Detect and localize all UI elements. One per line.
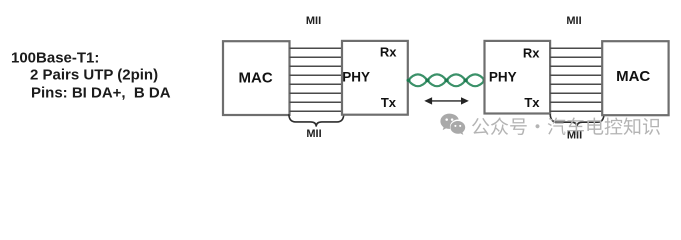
- watermark icon eyes: [445, 118, 461, 127]
- MII bus wires left (8 lines): [290, 48, 343, 111]
- MII bus wires right (8 lines): [550, 48, 602, 111]
- double-headed arrow under cable: [426, 98, 467, 103]
- svg-text:MII: MII: [306, 128, 321, 140]
- watermark text char 众: [491, 117, 508, 135]
- MAC box left: [223, 41, 290, 115]
- svg-text:100Base-T1:: 100Base-T1:: [11, 50, 99, 67]
- svg-text:MAC: MAC: [616, 68, 650, 85]
- watermark text char 电: [587, 118, 603, 135]
- svg-text:Rx: Rx: [380, 45, 397, 60]
- svg-text:2 Pairs UTP (2pin): 2 Pairs UTP (2pin): [30, 67, 158, 84]
- watermark text char 知: [624, 118, 641, 135]
- watermark text char 公: [472, 118, 489, 135]
- svg-text:MAC: MAC: [239, 69, 273, 86]
- MAC box right: [602, 41, 668, 115]
- svg-text:Rx: Rx: [523, 46, 540, 61]
- svg-text:Tx: Tx: [524, 95, 540, 110]
- svg-text:MII: MII: [566, 15, 581, 27]
- svg-text:Pins: BI DA+, B DA: Pins: BI DA+, B DA: [31, 84, 171, 101]
- brace under left MII bus: [289, 114, 344, 126]
- watermark text char 控: [605, 118, 623, 135]
- twisted pair cable (two crossed wires): [408, 74, 484, 86]
- PHY box right: [485, 41, 551, 114]
- svg-text:PHY: PHY: [489, 70, 517, 85]
- svg-text:PHY: PHY: [342, 70, 370, 85]
- PHY box left: [342, 41, 408, 115]
- watermark text char 汽: [548, 118, 566, 136]
- watermark text char 识: [643, 118, 660, 135]
- svg-text:MII: MII: [306, 15, 321, 27]
- watermark text char 车: [567, 117, 584, 135]
- brace under right MII bus: [550, 114, 604, 127]
- watermark wechat icon: small bubble: [450, 121, 465, 135]
- twisted pair junction dots: [407, 79, 487, 83]
- watermark text char 号: [510, 118, 527, 135]
- watermark wechat icon: big bubble: [440, 114, 465, 135]
- svg-text:Tx: Tx: [381, 95, 397, 110]
- watermark text char middle dot: [535, 124, 539, 128]
